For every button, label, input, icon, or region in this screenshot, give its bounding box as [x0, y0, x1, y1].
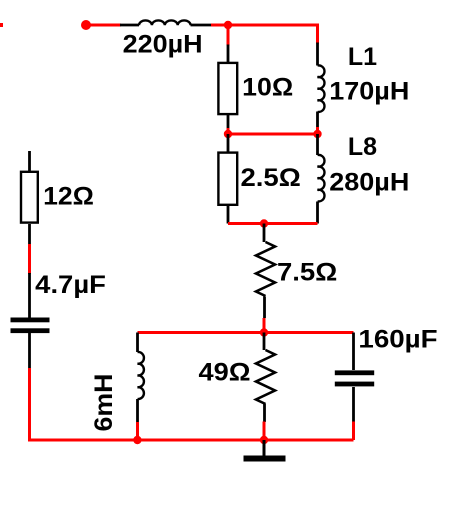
node junction B	[224, 130, 232, 138]
resistor 2.5 ohm leads	[227, 134, 230, 224]
svg-text:170µH: 170µH	[329, 77, 409, 105]
ground bar	[244, 456, 286, 462]
capacitor 4.7uF plates	[11, 318, 50, 323]
svg-text:6mH: 6mH	[90, 374, 118, 432]
resistor 12 ohm body	[21, 172, 38, 223]
resistor 10 ohm body	[218, 63, 237, 114]
svg-text:2.5Ω: 2.5Ω	[241, 164, 301, 192]
wire red left column lower	[28, 368, 31, 440]
svg-text:L8: L8	[348, 133, 377, 161]
capacitor 4.7uF bottom lead	[28, 333, 31, 369]
capacitor 160uF top lead	[352, 333, 355, 371]
svg-text:4.7µF: 4.7µF	[35, 271, 106, 299]
resistor 49 ohm bottom lead	[263, 404, 266, 422]
inductor 6mH bottom lead	[136, 399, 139, 423]
capacitor 160uF bottom lead	[352, 387, 355, 422]
wire top-left red	[86, 24, 121, 27]
inductor L8 leads	[316, 134, 319, 224]
inductor 6mH top lead	[136, 333, 139, 353]
ground stub	[263, 440, 266, 456]
wire top rail to right corner and down	[228, 25, 318, 44]
inductor L1 coil	[318, 65, 325, 112]
wire red lead bottom of L1	[316, 127, 319, 134]
wire lower-middle rail	[228, 222, 318, 225]
capacitor 4.7uF top lead	[28, 273, 31, 318]
wire red lead bottom of R 10 ohm	[227, 128, 230, 134]
capacitor 160uF plates	[335, 370, 374, 375]
wire middle rail	[228, 133, 318, 136]
wire red lead bottom of 6mH	[136, 422, 139, 440]
resistor 7.5 ohm bottom lead	[263, 297, 266, 319]
svg-text:12Ω: 12Ω	[43, 183, 94, 211]
node junction F	[260, 436, 268, 444]
node junction E	[133, 436, 141, 444]
node junction C	[313, 130, 321, 138]
wire red left column	[28, 244, 31, 274]
svg-text:49Ω: 49Ω	[199, 359, 251, 387]
resistor 49 ohm zigzag	[256, 350, 275, 404]
svg-text:10Ω: 10Ω	[242, 73, 293, 101]
wire red lead top of R 10 ohm	[227, 25, 230, 46]
node clipped wire at left edge	[0, 23, 3, 27]
wire red lead bottom of 160uF	[352, 422, 355, 441]
svg-text:220µH: 220µH	[123, 31, 203, 59]
inductor L1 leads	[316, 43, 319, 129]
resistor 12 ohm bottom lead	[28, 224, 31, 245]
svg-text:160µF: 160µF	[358, 326, 437, 354]
inductor 6mH coil	[138, 352, 144, 399]
wire red lead bottom of 49 ohm	[263, 422, 266, 441]
wire top to junction	[211, 24, 228, 27]
node junction G	[260, 328, 268, 336]
left branch stub	[28, 151, 31, 171]
node junction D	[260, 219, 268, 227]
inductor 220uH leads	[120, 24, 212, 27]
resistor 2.5 ohm body	[218, 153, 237, 205]
resistor 49 ohm top lead	[263, 333, 266, 351]
node input terminal dot	[81, 20, 91, 30]
wire red lead bottom of 7.5 ohm	[263, 318, 266, 333]
wire bottom rail	[28, 439, 354, 442]
node junction A	[224, 21, 232, 29]
svg-text:7.5Ω: 7.5Ω	[277, 259, 337, 287]
inductor 220uH coil	[139, 20, 191, 25]
wire bottom-section top rail	[138, 331, 354, 334]
resistor 7.5 ohm top lead	[263, 224, 266, 243]
resistor 10 ohm leads	[227, 45, 230, 130]
svg-text:L1: L1	[348, 43, 377, 71]
inductor L8 coil	[318, 155, 325, 202]
resistor 7.5 ohm zigzag	[256, 242, 275, 296]
svg-text:280µH: 280µH	[329, 169, 409, 197]
